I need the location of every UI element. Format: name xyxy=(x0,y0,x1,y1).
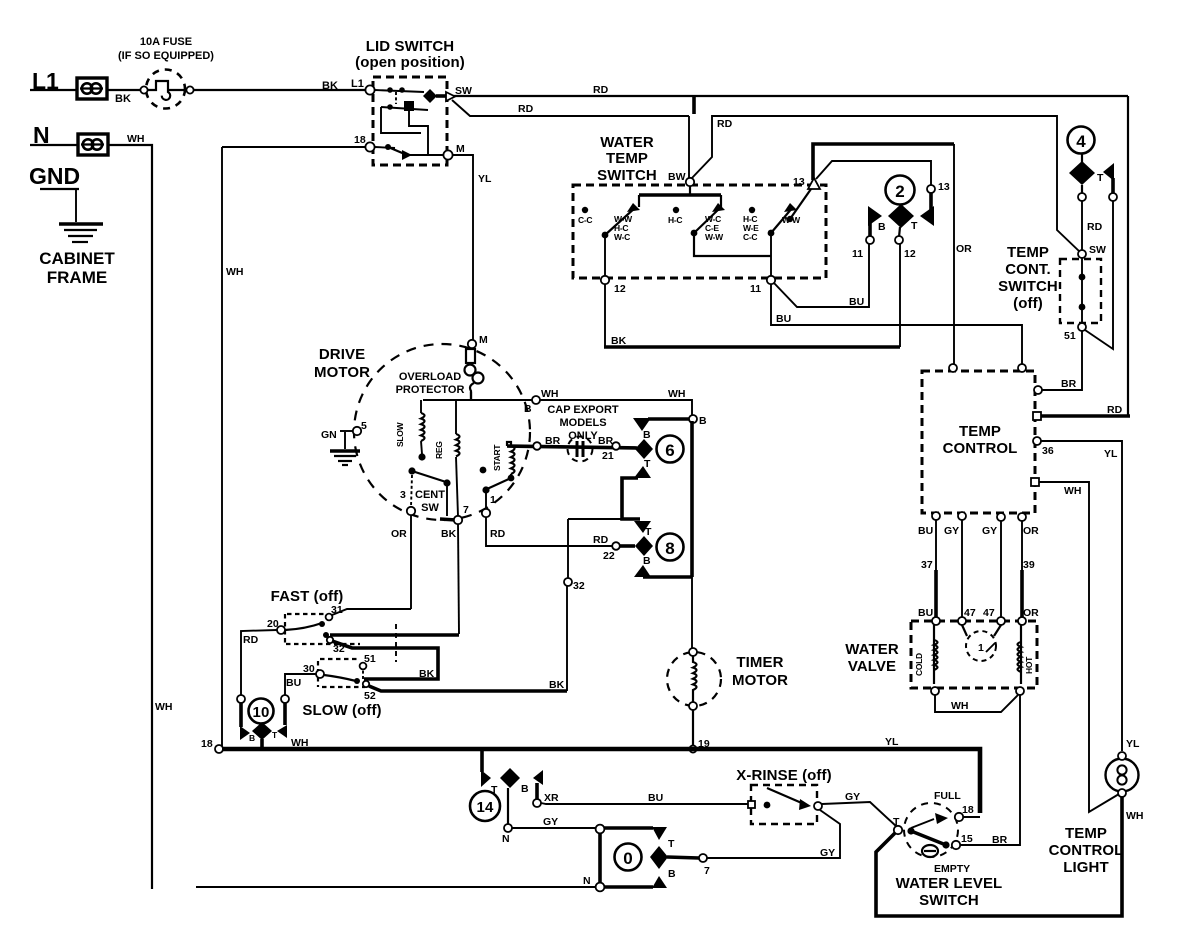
internal feed bus xyxy=(639,186,721,207)
x-rinse right terminal xyxy=(814,802,822,810)
ground symbol cabinet frame xyxy=(40,189,103,242)
junction stub RD1 to RD2 xyxy=(692,97,696,114)
switch wafer 1, contacts C-C / W-W H-C W-C xyxy=(578,203,640,276)
svg-text:32: 32 xyxy=(573,580,585,592)
svg-text:GND: GND xyxy=(29,163,80,189)
wire slow 52 to node 32 line xyxy=(369,686,567,691)
svg-text:OR: OR xyxy=(956,243,972,255)
mixing valve symbol xyxy=(962,625,1001,661)
main bus wire WH/YL xyxy=(222,749,980,813)
wire WH water level T return xyxy=(876,797,1122,916)
svg-text:BR: BR xyxy=(545,435,561,447)
svg-text:WH: WH xyxy=(541,388,559,400)
node 32 xyxy=(564,578,572,586)
svg-text:N: N xyxy=(583,875,591,887)
svg-text:M: M xyxy=(456,143,465,155)
svg-text:CAP EXPORT: CAP EXPORT xyxy=(547,404,619,416)
svg-text:7: 7 xyxy=(463,504,469,516)
svg-text:6: 6 xyxy=(665,441,674,460)
connector plug P2 xyxy=(78,134,108,155)
svg-text:7: 7 xyxy=(704,865,710,877)
svg-text:13: 13 xyxy=(793,176,805,188)
wire BU slow 30 to connector 10 xyxy=(285,674,316,695)
svg-text:13: 13 xyxy=(938,181,950,193)
svg-text:RD: RD xyxy=(490,528,506,540)
svg-text:WH: WH xyxy=(291,737,309,749)
lid switch box xyxy=(373,77,447,165)
svg-text:37: 37 xyxy=(921,559,933,571)
svg-text:12: 12 xyxy=(904,248,916,260)
wire connector 6 B to WH vertical xyxy=(648,417,690,421)
node SW junction xyxy=(1078,250,1086,258)
svg-text:T: T xyxy=(644,458,651,470)
wire 51 to connector 4 B side xyxy=(1085,201,1113,349)
fast terminal 31 xyxy=(326,614,333,621)
water temp switch box xyxy=(573,185,826,278)
lid switch terminal L1 xyxy=(365,85,374,94)
fast contact 32 xyxy=(323,632,329,638)
svg-text:BW: BW xyxy=(668,171,686,183)
wire fuse to lid switch, BK L1 xyxy=(194,89,366,91)
svg-text:MODELS: MODELS xyxy=(559,417,606,429)
svg-text:W-C: W-C xyxy=(614,232,630,242)
switch wafer 4, contact W-W to 13 xyxy=(782,189,811,225)
svg-text:SW: SW xyxy=(1089,244,1106,256)
svg-text:BU: BU xyxy=(286,677,301,689)
svg-text:5: 5 xyxy=(361,420,367,432)
wire RD2 diagonal from SW xyxy=(452,100,689,116)
slow winding xyxy=(395,400,426,461)
svg-text:3: 3 xyxy=(400,489,406,501)
svg-text:ONLY: ONLY xyxy=(568,430,598,442)
motor terminal B WH xyxy=(532,396,540,404)
svg-text:WH: WH xyxy=(1126,810,1144,822)
wire 13 to connector 2 T side xyxy=(816,161,931,185)
connector 8 xyxy=(634,521,684,577)
svg-text:47: 47 xyxy=(964,607,976,619)
svg-text:11: 11 xyxy=(852,248,863,260)
svg-text:18: 18 xyxy=(201,738,213,750)
svg-text:BR: BR xyxy=(992,834,1008,846)
svg-text:B: B xyxy=(521,783,529,795)
svg-text:TEMP: TEMP xyxy=(1065,825,1107,842)
svg-text:GY: GY xyxy=(820,847,835,859)
svg-text:12: 12 xyxy=(614,283,626,295)
svg-text:TEMP: TEMP xyxy=(959,423,1001,440)
svg-text:WATER: WATER xyxy=(600,134,654,151)
svg-text:B: B xyxy=(668,868,676,880)
wire GY x-rinse to connector 0 pin 7 xyxy=(707,810,840,858)
connector 14 xyxy=(470,751,543,845)
wire RD from connector 4 to temp cont switch xyxy=(1081,201,1083,250)
svg-text:SWITCH: SWITCH xyxy=(597,167,657,184)
water level terminal 18 xyxy=(955,813,963,821)
wire N plug to corner, WH xyxy=(108,145,152,889)
wire 51 to temp control BR xyxy=(1042,331,1082,390)
wire RD1 right vertical down to temp control xyxy=(1127,96,1129,416)
svg-text:TEMP: TEMP xyxy=(1007,244,1049,261)
svg-text:BU: BU xyxy=(776,313,791,325)
slow terminal 51 xyxy=(360,663,367,670)
connector 4 xyxy=(1068,127,1118,202)
svg-text:REG: REG xyxy=(434,441,444,459)
svg-text:2: 2 xyxy=(895,182,904,201)
lid switch terminal M xyxy=(443,150,452,159)
svg-text:36: 36 xyxy=(1042,445,1054,457)
lid switch terminal SW xyxy=(446,92,455,101)
temp control pin BR xyxy=(1034,386,1042,394)
svg-text:N: N xyxy=(502,833,510,845)
svg-text:GY: GY xyxy=(543,816,558,828)
svg-text:HOT: HOT xyxy=(1024,656,1034,674)
svg-text:21: 21 xyxy=(602,450,614,462)
svg-text:52: 52 xyxy=(364,690,376,702)
capacitor C1 (export) xyxy=(568,437,593,462)
connector 0 xyxy=(596,825,699,892)
svg-text:OVERLOAD: OVERLOAD xyxy=(399,371,461,383)
switch wafer 3, contacts H-C W-E C-C xyxy=(743,203,797,276)
temp control box xyxy=(922,371,1035,513)
wire plug to fuse, BK xyxy=(107,89,141,91)
water level diaphragm xyxy=(922,845,938,857)
slow terminal 52 xyxy=(363,681,369,687)
svg-text:TIMER: TIMER xyxy=(736,654,783,671)
fast switch arm xyxy=(285,621,325,630)
connector plug P1 xyxy=(77,78,107,99)
svg-text:14: 14 xyxy=(477,799,494,816)
temp control pin RD xyxy=(1033,412,1041,420)
svg-text:YL: YL xyxy=(478,173,492,185)
svg-text:WATER LEVEL: WATER LEVEL xyxy=(896,875,1003,892)
svg-text:(open position): (open position) xyxy=(355,54,465,71)
svg-text:WH: WH xyxy=(1064,485,1082,497)
svg-text:OR: OR xyxy=(1023,525,1039,537)
svg-text:4: 4 xyxy=(1076,132,1086,151)
svg-text:RD: RD xyxy=(717,118,733,130)
svg-text:T: T xyxy=(893,816,900,828)
wire RD1 from SW to far right xyxy=(453,95,1128,97)
svg-text:EMPTY: EMPTY xyxy=(934,863,970,875)
svg-text:RD: RD xyxy=(1087,221,1103,233)
svg-text:T: T xyxy=(668,838,675,850)
svg-text:RD: RD xyxy=(518,103,534,115)
switch wafer 2, contacts H-C / W-C C-E W-W xyxy=(668,203,771,256)
connector 6 xyxy=(633,418,684,478)
wire BK from motor 7 xyxy=(458,524,459,634)
svg-text:T: T xyxy=(645,526,652,538)
node 18 on bus xyxy=(215,745,223,753)
svg-text:PROTECTOR: PROTECTOR xyxy=(396,384,465,396)
svg-text:C-C: C-C xyxy=(743,232,757,242)
svg-text:B: B xyxy=(878,221,886,233)
svg-text:MOTOR: MOTOR xyxy=(314,364,370,381)
water level switch arm xyxy=(907,813,949,849)
svg-text:8: 8 xyxy=(665,539,674,558)
svg-text:15: 15 xyxy=(961,833,973,845)
svg-text:B: B xyxy=(524,403,532,415)
water level terminal 15 xyxy=(952,841,960,849)
motor terminal 1 xyxy=(482,509,490,517)
wire N to plug xyxy=(30,144,78,146)
slow terminal 30 xyxy=(316,670,324,678)
svg-text:1: 1 xyxy=(978,642,984,654)
svg-text:SWITCH: SWITCH xyxy=(919,892,979,909)
svg-text:DRIVE: DRIVE xyxy=(319,346,365,363)
terminal BW xyxy=(686,178,694,186)
svg-text:CONTROL: CONTROL xyxy=(943,440,1018,457)
svg-text:OR: OR xyxy=(1023,607,1039,619)
svg-text:B: B xyxy=(643,429,651,441)
svg-text:1: 1 xyxy=(490,494,496,506)
wire YL from lid switch M to drive motor xyxy=(453,155,473,341)
svg-text:FAST (off): FAST (off) xyxy=(271,588,344,605)
svg-text:YL: YL xyxy=(1126,738,1140,750)
wire BK to fast 32 xyxy=(330,633,459,637)
svg-text:CONT.: CONT. xyxy=(1005,261,1051,278)
temp cont switch contacts xyxy=(1079,258,1086,323)
svg-text:FULL: FULL xyxy=(934,790,961,802)
svg-text:CABINET: CABINET xyxy=(39,249,115,268)
svg-text:SLOW (off): SLOW (off) xyxy=(302,702,381,719)
wire XR/BU to x-rinse xyxy=(541,803,748,804)
wire RD2 drop to BW xyxy=(688,116,690,178)
svg-text:RD: RD xyxy=(593,84,609,96)
svg-text:RD: RD xyxy=(1107,404,1123,416)
svg-text:GY: GY xyxy=(845,791,860,803)
water level switch body xyxy=(904,803,958,857)
svg-text:BK: BK xyxy=(549,679,565,691)
wire N bottom xyxy=(196,886,596,888)
x-rinse left terminal xyxy=(748,801,755,808)
svg-text:WH: WH xyxy=(668,388,686,400)
terminal 13 xyxy=(808,178,820,189)
wire fast 31 to OR xyxy=(332,609,411,615)
svg-text:X-RINSE (off): X-RINSE (off) xyxy=(736,767,831,784)
temp control pin WH, wire to light xyxy=(1031,478,1039,486)
wire RD2 second segment to temp cont switch xyxy=(691,116,1080,252)
svg-text:SWITCH: SWITCH xyxy=(998,278,1058,295)
wire BK bottom run xyxy=(604,345,900,349)
wire GY to valve 47 second xyxy=(1000,521,1002,618)
svg-text:10: 10 xyxy=(253,704,270,721)
svg-text:SW: SW xyxy=(421,502,439,514)
lid switch middle row xyxy=(381,92,428,154)
wire BR valve to water level switch 15 xyxy=(960,695,1020,845)
svg-text:47: 47 xyxy=(983,607,995,619)
svg-text:XR: XR xyxy=(544,792,559,804)
wire 18 to left WH vertical xyxy=(222,146,365,148)
svg-text:39: 39 xyxy=(1023,559,1035,571)
temp control light xyxy=(1049,752,1139,876)
svg-text:(IF SO EQUIPPED): (IF SO EQUIPPED) xyxy=(118,50,214,62)
svg-text:WH: WH xyxy=(226,266,244,278)
svg-text:COLD: COLD xyxy=(914,653,924,676)
overload protector element xyxy=(465,349,484,397)
svg-text:YL: YL xyxy=(885,736,899,748)
svg-text:B: B xyxy=(249,733,255,743)
svg-text:20: 20 xyxy=(267,618,279,630)
temp control top pin 2 xyxy=(1018,364,1026,372)
connector 10 xyxy=(240,699,287,750)
svg-text:MOTOR: MOTOR xyxy=(732,672,788,689)
fast switch box xyxy=(285,614,360,644)
water valve bottom pins xyxy=(931,687,939,695)
wire OR 39 to valve xyxy=(1021,521,1023,570)
svg-text:BK: BK xyxy=(611,335,627,347)
svg-text:51: 51 xyxy=(1064,330,1076,342)
WH vertical to timer motor xyxy=(690,421,694,577)
svg-text:GN: GN xyxy=(321,429,337,441)
fast terminal 20 xyxy=(277,626,285,634)
wire WH below valve xyxy=(935,695,1018,712)
motor terminal M xyxy=(468,340,476,348)
svg-text:BU: BU xyxy=(918,607,933,619)
svg-text:GY: GY xyxy=(982,525,997,537)
drive motor body xyxy=(354,344,530,520)
svg-text:T: T xyxy=(911,220,918,232)
terminal 11 xyxy=(767,276,775,284)
reg winding xyxy=(434,400,460,516)
wire connector 6 T to connector 8 T xyxy=(622,478,640,519)
water valve box xyxy=(911,621,1037,688)
temp control pin 36, YL wire to light xyxy=(1033,437,1041,445)
water valve top pins xyxy=(932,617,940,625)
motor ground GN xyxy=(321,429,360,465)
terminal 12 xyxy=(601,276,609,284)
wire BU from 11 to connector 2 B xyxy=(774,244,869,307)
wire WH motor to timer vertical xyxy=(540,400,692,415)
svg-text:10A FUSE: 10A FUSE xyxy=(140,36,192,48)
svg-text:0: 0 xyxy=(623,849,632,868)
svg-text:BU: BU xyxy=(648,792,663,804)
svg-text:(off): (off) xyxy=(1013,295,1043,312)
svg-text:WATER: WATER xyxy=(845,641,899,658)
svg-text:RD: RD xyxy=(243,634,259,646)
motor internal bus xyxy=(470,397,472,400)
svg-text:18: 18 xyxy=(962,804,974,816)
temp control top pin 1 xyxy=(949,364,957,372)
start winding xyxy=(480,442,515,509)
svg-text:CENT: CENT xyxy=(415,489,445,501)
svg-text:M: M xyxy=(479,334,488,346)
svg-text:VALVE: VALVE xyxy=(848,658,896,675)
svg-text:LIGHT: LIGHT xyxy=(1063,859,1109,876)
node 7 xyxy=(699,854,707,862)
svg-text:22: 22 xyxy=(603,550,615,562)
svg-text:GY: GY xyxy=(944,525,959,537)
svg-text:WH: WH xyxy=(951,700,969,712)
terminal 51 xyxy=(1078,323,1086,331)
water level terminal T xyxy=(894,826,902,834)
svg-text:CONTROL: CONTROL xyxy=(1049,842,1124,859)
centrifugal switch xyxy=(408,467,456,520)
svg-text:BU: BU xyxy=(849,296,864,308)
svg-text:FRAME: FRAME xyxy=(47,268,107,287)
wire GY to valve 47 xyxy=(961,520,963,618)
motor terminal 7 xyxy=(454,516,462,524)
wire GY x-rinse to water level T xyxy=(822,802,897,827)
wire BU 37 to valve xyxy=(935,520,937,570)
fuse F1 (10A) xyxy=(118,36,214,109)
svg-text:OR: OR xyxy=(391,528,407,540)
wire OR from motor 3 xyxy=(410,515,412,609)
svg-text:LID SWITCH: LID SWITCH xyxy=(366,38,455,55)
svg-text:18: 18 xyxy=(354,134,366,146)
wire WH from lid switch 18 down the page xyxy=(221,147,223,749)
svg-text:BK: BK xyxy=(441,528,457,540)
lid switch lower contact arm xyxy=(375,144,444,160)
temp control bottom pins xyxy=(932,512,940,520)
svg-text:51: 51 xyxy=(364,653,376,665)
cold solenoid coil xyxy=(914,625,938,684)
svg-text:BK: BK xyxy=(419,668,435,680)
svg-text:BR: BR xyxy=(598,435,614,447)
svg-text:T: T xyxy=(1097,172,1104,184)
svg-text:WH: WH xyxy=(127,133,145,145)
lid switch top contact row xyxy=(375,87,447,103)
x-rinse switch box xyxy=(751,785,817,824)
wire timer to bus, node 19 xyxy=(692,710,694,749)
lid switch terminal 18 xyxy=(365,142,374,151)
node 22 xyxy=(612,542,620,550)
wire BR start winding to connector 6 xyxy=(507,446,637,448)
svg-text:L1: L1 xyxy=(351,78,364,90)
wire BK from 12 xyxy=(604,284,606,347)
wire L1 to plug xyxy=(30,89,76,91)
slow switch box xyxy=(318,659,365,687)
wire node 32 down to slow switch xyxy=(566,586,568,691)
wire fast 32 to slow 51 xyxy=(332,641,438,679)
svg-text:B: B xyxy=(699,415,707,427)
wire RD from motor 1 to connector 8 xyxy=(486,517,612,546)
hot solenoid coil xyxy=(1018,625,1035,684)
motor terminal 3 xyxy=(407,507,415,515)
timer motor xyxy=(667,648,788,710)
svg-text:BR: BR xyxy=(1061,378,1077,390)
svg-text:B: B xyxy=(643,555,651,567)
connector 2 xyxy=(852,176,950,261)
svg-text:H-C: H-C xyxy=(668,215,682,225)
svg-text:WH: WH xyxy=(155,701,173,713)
temp cont switch box xyxy=(1060,259,1101,323)
svg-text:BU: BU xyxy=(918,525,933,537)
wire connector 8 B to WH vertical xyxy=(643,575,692,579)
wire BU from 11 to temp control xyxy=(771,284,1022,364)
mechanical link dashes xyxy=(395,624,397,662)
svg-text:BK: BK xyxy=(322,80,338,92)
wire branch to node 32 xyxy=(568,518,622,520)
svg-text:C-C: C-C xyxy=(578,215,592,225)
slow switch arm xyxy=(324,675,360,684)
wire RD fast 20 to connector 10 xyxy=(241,630,277,695)
svg-text:YL: YL xyxy=(1104,448,1118,460)
svg-text:START: START xyxy=(492,444,502,471)
svg-text:BK: BK xyxy=(115,93,131,105)
wire GY connector 14 to connector 0 xyxy=(512,827,596,829)
motor terminal 5 xyxy=(353,427,361,435)
x-rinse contacts xyxy=(764,788,811,810)
svg-text:TEMP: TEMP xyxy=(606,150,648,167)
svg-text:SLOW: SLOW xyxy=(395,421,405,447)
svg-text:W-W: W-W xyxy=(705,232,724,242)
svg-text:11: 11 xyxy=(750,283,761,295)
svg-text:RD: RD xyxy=(593,534,609,546)
wire OR from 13 to temp control xyxy=(813,144,954,180)
